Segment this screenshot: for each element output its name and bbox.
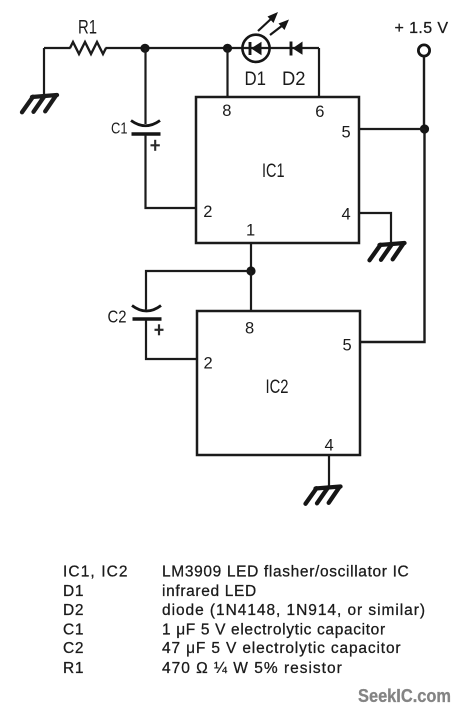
svg-text:D1: D1 [63, 583, 84, 600]
svg-text:IC2: IC2 [266, 377, 289, 398]
svg-text:D2: D2 [63, 602, 84, 619]
wire: node D left then down to C2 [146, 271, 251, 310]
ground (IC2 pin 4) [306, 487, 341, 504]
svg-text:D1: D1 [245, 69, 267, 90]
svg-text:1 μF 5 V electrolytic capacito: 1 μF 5 V electrolytic capacitor [162, 621, 386, 638]
svg-text:C1: C1 [111, 121, 128, 138]
wire: top-left corner to R1 [44, 47, 71, 49]
node B (D1 anode junction) [223, 44, 232, 53]
wire: node D down to IC2 pin 8 [250, 271, 252, 311]
capacitor C1 [131, 121, 161, 135]
wire: R1 to D2 corner [106, 47, 320, 49]
ground [22, 95, 57, 112]
wire: rail node C down then left to IC2 pin 5 [360, 129, 425, 342]
svg-text:D2: D2 [282, 69, 306, 90]
ground (IC1 pin 4) [370, 243, 405, 260]
op IC1 box [196, 97, 359, 243]
+1.5 V terminal [418, 45, 429, 56]
svg-text:1: 1 [246, 222, 255, 240]
node D (pin1 / C2 / IC2 pin 8 junction) [246, 266, 255, 275]
svg-text:8: 8 [222, 102, 231, 120]
svg-text:+ 1.5 V: + 1.5 V [395, 20, 449, 37]
wire: C1 down, then right to IC1 pin 2 [146, 135, 197, 208]
svg-text:R1: R1 [78, 18, 97, 39]
resistor R1 [70, 42, 106, 54]
wire: left drop to ground [43, 48, 45, 96]
svg-text:diode (1N4148, 1N914, or simil: diode (1N4148, 1N914, or similar) [162, 602, 426, 619]
LED D1 [242, 12, 289, 62]
svg-text:6: 6 [315, 103, 324, 121]
wire: IC1 pin 4 stub to ground [359, 213, 391, 244]
wire: node A down to C1 [144, 48, 146, 124]
svg-text:LM3909 LED flasher/oscillator: LM3909 LED flasher/oscillator IC [162, 564, 409, 581]
svg-text:8: 8 [245, 320, 254, 338]
svg-text:4: 4 [325, 437, 334, 455]
wire: IC1 pin 1 down to node D [250, 243, 252, 271]
svg-text:C1: C1 [63, 621, 84, 638]
wire: D2 corner down to IC1 pin 6 [318, 48, 320, 97]
wire: IC2 pin 4 down to ground [328, 455, 330, 487]
svg-text:2: 2 [203, 203, 212, 221]
wire: terminal down to node C [423, 56, 425, 129]
svg-text:470 Ω ¼ W 5% resistor: 470 Ω ¼ W 5% resistor [162, 660, 343, 677]
node C (+V rail / IC1 pin 5) [420, 124, 429, 133]
diode D2 [291, 42, 303, 56]
capacitor C2 [132, 306, 162, 320]
svg-text:C2: C2 [63, 640, 84, 657]
svg-text:IC1: IC1 [262, 161, 285, 182]
C1 plus sign [151, 140, 160, 151]
svg-text:47 μF 5 V electrolytic capacit: 47 μF 5 V electrolytic capacitor [162, 640, 401, 657]
svg-text:SeekIC.com: SeekIC.com [358, 685, 451, 706]
C2 plus sign [155, 324, 164, 335]
svg-text:C2: C2 [108, 307, 127, 327]
op IC2 box [197, 311, 360, 455]
svg-text:5: 5 [342, 124, 351, 142]
svg-text:infrared LED: infrared LED [162, 583, 257, 600]
svg-text:5: 5 [343, 337, 352, 355]
svg-text:R1: R1 [63, 660, 84, 677]
wire: IC1 pin 5 stub to node C [359, 128, 425, 130]
svg-text:IC1, IC2: IC1, IC2 [63, 564, 129, 581]
svg-text:4: 4 [342, 206, 351, 224]
wire: node B down to IC1 pin 8 [226, 48, 228, 97]
node A (R1 / C1 junction) [140, 44, 149, 53]
wire: C2 down then right to IC2 pin 2 [146, 320, 197, 359]
svg-text:2: 2 [204, 355, 213, 373]
